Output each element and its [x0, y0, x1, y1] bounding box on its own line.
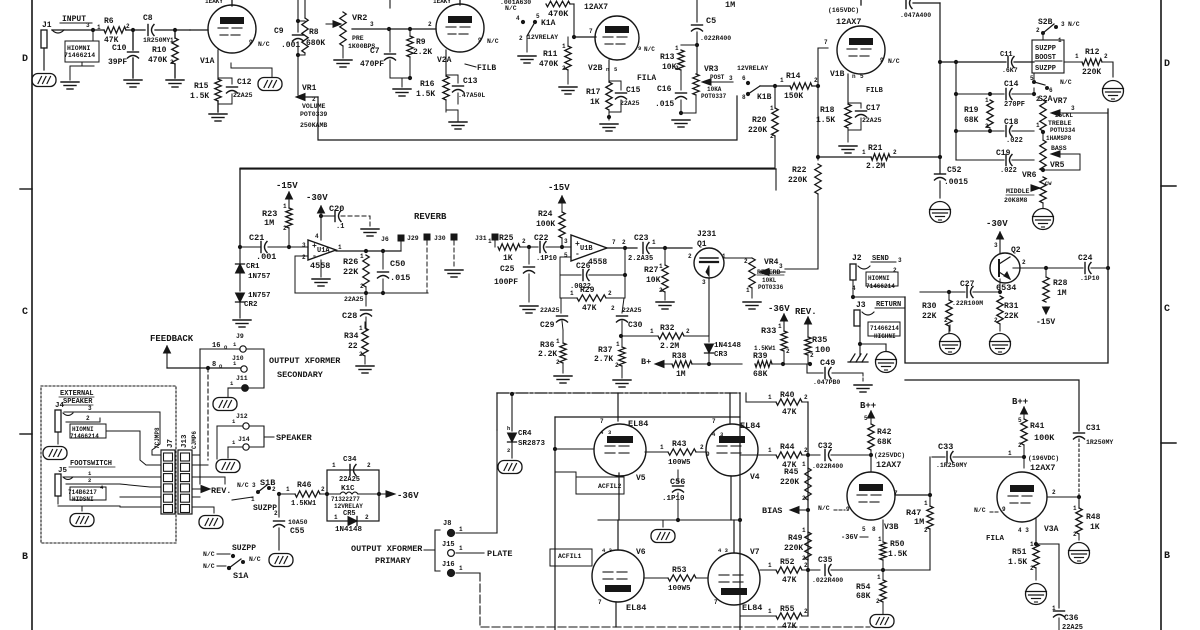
svg-text:2: 2 — [700, 444, 704, 451]
svg-text:N/C: N/C — [258, 41, 270, 48]
svg-text:V7: V7 — [750, 548, 760, 557]
svg-text:1: 1 — [97, 24, 101, 31]
svg-text:EL84: EL84 — [626, 603, 646, 613]
svg-text:POT0336: POT0336 — [758, 284, 784, 291]
svg-text:2.2M: 2.2M — [866, 162, 885, 171]
svg-text:100W5: 100W5 — [668, 585, 691, 593]
svg-text:2: 2 — [283, 225, 287, 232]
svg-text:.0015: .0015 — [944, 178, 968, 187]
svg-text:1.5KW1: 1.5KW1 — [291, 500, 316, 508]
svg-text:22A25: 22A25 — [344, 296, 364, 303]
svg-text:R12: R12 — [1085, 48, 1100, 57]
svg-text:1: 1 — [877, 574, 881, 581]
svg-text:12AX7: 12AX7 — [836, 17, 862, 27]
svg-text:1: 1 — [660, 444, 664, 451]
svg-text:N/C: N/C — [249, 556, 261, 563]
svg-text:1M: 1M — [725, 0, 735, 10]
svg-text:8: 8 — [742, 94, 746, 101]
svg-text:1: 1 — [556, 338, 560, 345]
svg-text:R17: R17 — [586, 88, 601, 97]
svg-text:10KL: 10KL — [762, 277, 777, 284]
svg-text:R44: R44 — [780, 443, 795, 452]
svg-text:B++: B++ — [1012, 397, 1028, 407]
svg-text:1: 1 — [1058, 37, 1062, 44]
svg-text:R9: R9 — [416, 38, 426, 47]
svg-text:R54: R54 — [856, 583, 871, 592]
svg-text:7: 7 — [712, 418, 716, 425]
svg-text:2: 2 — [611, 305, 615, 312]
svg-text:C13: C13 — [463, 77, 478, 86]
svg-text:V1B: V1B — [830, 70, 845, 79]
svg-text:R32: R32 — [660, 324, 675, 333]
svg-text:C30: C30 — [628, 321, 643, 330]
svg-text:1: 1 — [768, 608, 772, 615]
svg-text:4 3: 4 3 — [1018, 527, 1029, 534]
svg-text:J2: J2 — [852, 254, 862, 263]
svg-text:J15: J15 — [442, 541, 455, 549]
svg-text:2: 2 — [814, 77, 818, 84]
svg-text:R8: R8 — [309, 28, 319, 37]
svg-text:7: 7 — [824, 39, 828, 46]
svg-text:TREBLE: TREBLE — [1048, 120, 1072, 127]
svg-text:1.5K: 1.5K — [1008, 558, 1027, 567]
svg-text:C17: C17 — [866, 104, 881, 113]
svg-text:68K: 68K — [964, 116, 979, 125]
svg-text:1: 1 — [659, 263, 663, 270]
svg-text:R14: R14 — [786, 72, 801, 81]
svg-text:C32: C32 — [818, 442, 833, 451]
svg-text:220K: 220K — [1082, 68, 1101, 77]
svg-text:10K: 10K — [646, 276, 661, 285]
svg-text:ACFIL1: ACFIL1 — [558, 553, 582, 560]
svg-text:CJMP6: CJMP6 — [191, 431, 198, 449]
svg-text:22A25: 22A25 — [862, 117, 882, 124]
svg-text:U1B: U1B — [580, 245, 593, 253]
svg-text:R55: R55 — [780, 605, 795, 614]
svg-text:5: 5 — [1018, 417, 1022, 424]
svg-text:C19: C19 — [996, 149, 1011, 158]
svg-text:R49: R49 — [788, 534, 803, 543]
svg-text:.022: .022 — [1006, 137, 1023, 145]
svg-text:S1A: S1A — [233, 571, 249, 581]
svg-text:1: 1 — [675, 45, 679, 52]
svg-text:10KA: 10KA — [707, 86, 722, 93]
svg-text:1K: 1K — [590, 98, 600, 107]
svg-text:1: 1 — [802, 527, 806, 534]
svg-text:1N757: 1N757 — [248, 292, 271, 300]
svg-text:5: 5 — [1030, 75, 1034, 82]
svg-text:J231: J231 — [697, 230, 716, 239]
svg-text:1N757: 1N757 — [248, 273, 271, 281]
svg-text:(196VDC): (196VDC) — [1028, 455, 1059, 462]
svg-text:2: 2 — [312, 96, 316, 103]
svg-text:MIDDLE: MIDDLE — [1006, 188, 1030, 195]
svg-text:9: 9 — [249, 39, 253, 46]
svg-text:22: 22 — [348, 342, 358, 351]
svg-text:R6: R6 — [104, 17, 114, 26]
svg-text:R38: R38 — [672, 352, 687, 361]
svg-text:C24: C24 — [1078, 254, 1093, 263]
svg-text:2: 2 — [522, 238, 526, 245]
svg-text:FILA: FILA — [637, 74, 656, 83]
svg-text:C10: C10 — [112, 44, 127, 53]
svg-text:12VRELAY: 12VRELAY — [334, 503, 363, 510]
svg-text:2: 2 — [365, 514, 369, 521]
svg-text:714B6217: 714B6217 — [68, 489, 97, 496]
svg-text:N/C: N/C — [1068, 21, 1080, 28]
svg-text:220K: 220K — [784, 544, 803, 553]
svg-text:R10: R10 — [152, 46, 167, 55]
svg-text:1: 1 — [332, 462, 336, 469]
svg-text:3: 3 — [1061, 21, 1065, 28]
svg-text:270PF: 270PF — [1004, 101, 1025, 109]
svg-text:22A25: 22A25 — [1062, 624, 1083, 630]
svg-text:9: 9 — [478, 37, 482, 44]
svg-text:R30: R30 — [922, 302, 937, 311]
svg-text:2: 2 — [686, 328, 690, 335]
svg-text:1N4148: 1N4148 — [714, 342, 742, 350]
svg-text:J31: J31 — [475, 235, 487, 242]
svg-text:POT0339: POT0339 — [300, 111, 327, 118]
svg-text:C22: C22 — [534, 234, 549, 243]
svg-text:.1P10: .1P10 — [536, 255, 557, 263]
svg-text:2: 2 — [1104, 53, 1108, 60]
svg-text:2: 2 — [1073, 531, 1077, 538]
svg-text:4 3: 4 3 — [602, 547, 613, 554]
svg-text:HIOMNI: HIOMNI — [868, 275, 890, 282]
svg-text:B: B — [1164, 551, 1170, 562]
svg-text:.047PB0: .047PB0 — [813, 379, 840, 386]
svg-text:SPEAKER: SPEAKER — [276, 433, 313, 443]
svg-text:R29: R29 — [580, 286, 595, 295]
svg-text:2.2K: 2.2K — [413, 48, 432, 57]
svg-text:9: 9 — [1002, 506, 1006, 513]
svg-text:R18: R18 — [820, 106, 835, 115]
svg-text:V1A: V1A — [200, 57, 215, 66]
svg-text:68K: 68K — [856, 592, 871, 601]
svg-text:4558: 4558 — [588, 258, 607, 267]
svg-text:9: 9 — [880, 57, 884, 64]
svg-text:REV.: REV. — [795, 307, 817, 317]
svg-text:68K: 68K — [753, 370, 768, 379]
svg-text:7: 7 — [894, 490, 898, 497]
svg-text:J6: J6 — [381, 236, 389, 243]
svg-text:C7: C7 — [370, 47, 380, 56]
svg-text:C25: C25 — [500, 265, 515, 274]
svg-text:22K: 22K — [1004, 312, 1019, 321]
svg-text:.047A400: .047A400 — [900, 12, 931, 19]
svg-text:R25: R25 — [499, 234, 514, 243]
svg-text:1: 1 — [1030, 541, 1034, 548]
svg-text:CW: CW — [1045, 180, 1052, 187]
svg-text:2: 2 — [126, 23, 130, 30]
svg-text:SUZPP: SUZPP — [232, 544, 256, 553]
svg-text:2: 2 — [1036, 27, 1040, 34]
svg-text:C26: C26 — [576, 262, 591, 271]
svg-text:1: 1 — [1075, 53, 1079, 60]
svg-text:C50: C50 — [390, 259, 405, 269]
svg-text:J7: J7 — [167, 439, 175, 448]
svg-text:C36: C36 — [1064, 614, 1079, 623]
svg-text:3: 3 — [302, 242, 306, 249]
svg-text:R21: R21 — [868, 144, 883, 153]
svg-text:V4: V4 — [750, 473, 760, 482]
svg-text:EL84: EL84 — [740, 421, 760, 431]
svg-text:C14: C14 — [1004, 80, 1019, 89]
svg-text:3: 3 — [370, 21, 374, 28]
svg-text:1: 1 — [652, 239, 656, 246]
svg-text:C23: C23 — [634, 234, 649, 243]
svg-text:22K: 22K — [922, 312, 937, 321]
svg-text:V3A: V3A — [1044, 525, 1059, 534]
svg-text:2: 2 — [556, 359, 560, 366]
svg-text:V2A: V2A — [437, 56, 452, 65]
svg-text:C: C — [1164, 304, 1170, 315]
svg-text:U1A: U1A — [317, 247, 330, 255]
svg-text:C11: C11 — [1000, 51, 1013, 59]
svg-text:CR4: CR4 — [518, 430, 532, 438]
svg-text:-15V: -15V — [548, 183, 570, 193]
svg-text:2: 2 — [1018, 442, 1022, 449]
svg-text:C29: C29 — [540, 321, 555, 330]
svg-text:1: 1 — [334, 514, 338, 521]
svg-text:1N4148: 1N4148 — [335, 526, 363, 534]
svg-text:-36V: -36V — [768, 304, 790, 314]
svg-text:1.5K: 1.5K — [888, 550, 907, 559]
svg-text:-36V: -36V — [397, 491, 419, 501]
svg-text:V2B: V2B — [588, 64, 603, 73]
svg-text:2: 2 — [302, 254, 306, 261]
svg-text:2: 2 — [804, 394, 808, 401]
svg-text:SUZPP: SUZPP — [1035, 45, 1056, 53]
svg-text:2: 2 — [88, 477, 91, 484]
svg-text:Q1: Q1 — [697, 240, 707, 249]
svg-text:-15V: -15V — [276, 181, 298, 191]
svg-text:470PF: 470PF — [360, 60, 384, 69]
svg-text:SR2873: SR2873 — [518, 440, 546, 448]
svg-text:EL84: EL84 — [628, 419, 648, 429]
svg-text:R20: R20 — [752, 116, 767, 125]
svg-text:3: 3 — [86, 22, 90, 29]
svg-text:1: 1 — [338, 244, 342, 251]
svg-text:2: 2 — [810, 352, 814, 359]
svg-text:C5: C5 — [706, 16, 716, 26]
svg-text:N/C: N/C — [487, 38, 499, 45]
svg-text:J12: J12 — [236, 413, 248, 420]
svg-text:2: 2 — [274, 510, 278, 517]
svg-text:9: 9 — [846, 506, 850, 513]
svg-text:2: 2 — [360, 283, 364, 290]
svg-text:12VRELAY: 12VRELAY — [527, 34, 558, 41]
svg-text:C31: C31 — [1086, 424, 1101, 433]
svg-text:R24: R24 — [538, 210, 553, 219]
svg-text:2: 2 — [770, 133, 774, 140]
svg-text:1: 1 — [650, 328, 654, 335]
svg-text:R16: R16 — [420, 80, 435, 89]
svg-text:1: 1 — [170, 37, 174, 44]
svg-text:V3B: V3B — [884, 523, 899, 532]
svg-text:100K: 100K — [536, 220, 555, 229]
svg-text:470K: 470K — [148, 56, 167, 65]
svg-text:100W5: 100W5 — [668, 459, 691, 467]
svg-text:71466214: 71466214 — [870, 325, 899, 332]
svg-text:1: 1 — [570, 290, 574, 297]
svg-text:HIOMNI: HIOMNI — [67, 45, 91, 52]
svg-text:R48: R48 — [1086, 513, 1101, 522]
svg-text:R26: R26 — [343, 257, 358, 267]
svg-text:h: h — [507, 425, 510, 432]
svg-text:C18: C18 — [1004, 118, 1019, 127]
svg-text:2: 2 — [893, 267, 897, 274]
svg-text:D: D — [22, 54, 28, 65]
svg-text:2: 2 — [272, 486, 276, 493]
svg-text:R39: R39 — [753, 352, 768, 361]
svg-text:3: 3 — [729, 75, 733, 82]
svg-text:47K: 47K — [782, 622, 797, 630]
svg-text:R27: R27 — [644, 266, 659, 275]
svg-text:.022R400: .022R400 — [812, 463, 843, 470]
svg-text:FILB: FILB — [866, 87, 884, 95]
svg-text:C52: C52 — [947, 166, 962, 175]
svg-text:R11: R11 — [543, 50, 558, 59]
svg-text:R41: R41 — [1030, 422, 1045, 431]
svg-text:7: 7 — [598, 599, 602, 606]
svg-text:FILA: FILA — [986, 535, 1005, 543]
svg-text:2: 2 — [802, 495, 806, 502]
svg-text:1M: 1M — [914, 517, 924, 527]
svg-text:1.5K: 1.5K — [416, 90, 435, 99]
svg-text:2.2M: 2.2M — [660, 342, 679, 351]
svg-text:2: 2 — [804, 608, 808, 615]
svg-text:1: 1 — [768, 447, 772, 454]
svg-text:1: 1 — [459, 545, 463, 552]
svg-text:C: C — [22, 307, 28, 318]
svg-text:680K: 680K — [306, 39, 325, 48]
svg-text:2: 2 — [688, 253, 692, 260]
svg-text:R53: R53 — [672, 566, 687, 575]
svg-text:C55: C55 — [290, 527, 305, 536]
svg-text:VR6: VR6 — [1022, 171, 1037, 180]
svg-text:1K: 1K — [1090, 523, 1100, 532]
svg-text:1: 1 — [768, 562, 772, 569]
svg-text:2: 2 — [507, 447, 510, 454]
svg-text:220K: 220K — [748, 126, 767, 135]
svg-text:R52: R52 — [780, 558, 795, 567]
svg-text:J9: J9 — [236, 333, 244, 340]
svg-text:VR1: VR1 — [302, 84, 317, 93]
svg-text:2.7K: 2.7K — [594, 355, 613, 364]
svg-text:1: 1 — [360, 253, 364, 260]
svg-text:250KAMB: 250KAMB — [300, 122, 327, 129]
svg-text:71466214: 71466214 — [70, 433, 99, 440]
svg-text:B+: B+ — [641, 357, 651, 367]
svg-text:-15V: -15V — [1036, 318, 1055, 327]
svg-text:R45: R45 — [784, 468, 799, 477]
svg-text:22A25: 22A25 — [540, 307, 560, 314]
svg-text:3: 3 — [779, 263, 783, 270]
svg-text:1: 1 — [746, 287, 750, 294]
svg-text:1: 1 — [616, 341, 620, 348]
svg-text:HIGHNI: HIGHNI — [874, 333, 896, 340]
svg-text:12AX7: 12AX7 — [876, 460, 902, 470]
svg-text:CR1: CR1 — [246, 263, 260, 271]
svg-text:2: 2 — [1030, 565, 1034, 572]
svg-text:C27: C27 — [960, 280, 975, 289]
svg-text:K1A: K1A — [541, 19, 556, 28]
svg-text:C20: C20 — [329, 204, 344, 214]
svg-text:C16: C16 — [657, 85, 672, 94]
svg-text:D: D — [1164, 59, 1170, 70]
svg-text:R46: R46 — [297, 481, 312, 490]
svg-text:71466214: 71466214 — [866, 283, 895, 290]
svg-text:25CKL: 25CKL — [1055, 112, 1073, 119]
svg-text:1: 1 — [1052, 605, 1056, 612]
svg-text:VR7: VR7 — [1053, 97, 1068, 106]
svg-text:N/C: N/C — [818, 505, 830, 512]
svg-text:1: 1 — [780, 77, 784, 84]
svg-text:22A25: 22A25 — [339, 476, 360, 484]
svg-text:C49: C49 — [820, 358, 835, 368]
svg-text:2: 2 — [924, 527, 928, 534]
svg-text:2: 2 — [428, 21, 432, 28]
svg-text:150K: 150K — [784, 92, 803, 101]
svg-text:47K: 47K — [582, 304, 597, 313]
svg-text:.022: .022 — [1000, 167, 1017, 175]
svg-text:2: 2 — [86, 415, 90, 422]
svg-text:1: 1 — [1008, 450, 1012, 457]
svg-text:8: 8 — [872, 526, 876, 533]
svg-text:-30V: -30V — [306, 193, 328, 203]
svg-text:1R250MY: 1R250MY — [143, 37, 170, 44]
svg-text:C28: C28 — [342, 311, 357, 321]
svg-text:PLATE: PLATE — [487, 549, 513, 559]
svg-text:R43: R43 — [672, 440, 687, 449]
svg-text:C9: C9 — [274, 27, 284, 36]
svg-text:2.2K: 2.2K — [538, 350, 557, 359]
svg-text:2: 2 — [876, 598, 880, 605]
svg-text:2: 2 — [1036, 96, 1040, 103]
svg-text:1M: 1M — [676, 370, 686, 379]
svg-text:9: 9 — [638, 45, 641, 52]
svg-text:470K: 470K — [548, 9, 569, 19]
svg-text:2: 2 — [744, 258, 748, 265]
svg-text:R28: R28 — [1053, 279, 1068, 288]
svg-text:R36: R36 — [540, 341, 555, 350]
svg-text:1: 1 — [488, 238, 492, 245]
svg-text:9: 9 — [706, 451, 710, 458]
svg-text:5: 5 — [864, 415, 868, 422]
svg-text:C33: C33 — [938, 442, 953, 452]
svg-text:2: 2 — [615, 362, 619, 369]
svg-text:.022R400: .022R400 — [700, 35, 731, 42]
svg-text:VR5: VR5 — [1050, 161, 1065, 170]
svg-text:4558: 4558 — [310, 261, 330, 271]
svg-text:1: 1 — [802, 461, 806, 468]
svg-text:.22R100M: .22R100M — [952, 300, 983, 307]
svg-text:1: 1 — [459, 565, 463, 572]
svg-text:REVERB: REVERB — [414, 212, 447, 222]
svg-text:FILB: FILB — [477, 64, 496, 73]
svg-text:.1P10: .1P10 — [1080, 275, 1100, 282]
svg-text:47K: 47K — [782, 576, 797, 585]
svg-text:2: 2 — [1052, 489, 1056, 496]
svg-text:2: 2 — [562, 65, 566, 72]
svg-text:2: 2 — [170, 59, 174, 66]
svg-text:-30V: -30V — [986, 219, 1008, 229]
svg-text:R35: R35 — [812, 335, 827, 345]
svg-text:V5: V5 — [636, 474, 646, 483]
svg-text:10A50: 10A50 — [288, 519, 308, 526]
